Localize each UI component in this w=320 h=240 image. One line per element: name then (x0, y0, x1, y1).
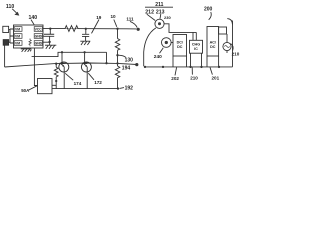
svg-text:210: 210 (190, 75, 198, 80)
svg-text:CHG: CHG (192, 43, 200, 47)
svg-text:174: 174 (74, 81, 82, 86)
svg-text:140: 140 (29, 15, 38, 21)
svg-text:50A: 50A (21, 88, 30, 93)
svg-text:VM: VM (15, 27, 20, 31)
svg-text:172: 172 (94, 80, 102, 85)
svg-text:19: 19 (96, 15, 102, 20)
svg-text:VM: VM (15, 41, 20, 45)
svg-text:110: 110 (6, 4, 14, 10)
svg-text:DC/: DC/ (177, 41, 183, 45)
svg-text:200: 200 (204, 7, 213, 13)
svg-text:IC: IC (194, 47, 198, 51)
svg-text:130: 130 (125, 57, 134, 63)
svg-text:230: 230 (164, 15, 171, 20)
svg-text:201: 201 (212, 76, 220, 81)
svg-text:AC/: AC/ (210, 41, 216, 45)
svg-text:192: 192 (125, 85, 134, 91)
svg-text:111: 111 (126, 17, 134, 22)
svg-text:194: 194 (122, 66, 131, 72)
svg-text:GND: GND (35, 34, 43, 38)
svg-text:VM: VM (15, 34, 20, 38)
svg-text:240: 240 (154, 54, 162, 60)
svg-text:GND: GND (35, 41, 43, 45)
svg-text:10: 10 (111, 14, 117, 19)
svg-text:210: 210 (232, 52, 240, 57)
svg-text:VCC: VCC (35, 27, 43, 31)
svg-text:211: 211 (155, 2, 163, 8)
svg-text:DC: DC (177, 45, 183, 49)
svg-text:DC: DC (210, 45, 216, 49)
svg-text:202: 202 (171, 76, 179, 81)
svg-text:212: 212 (145, 9, 154, 15)
